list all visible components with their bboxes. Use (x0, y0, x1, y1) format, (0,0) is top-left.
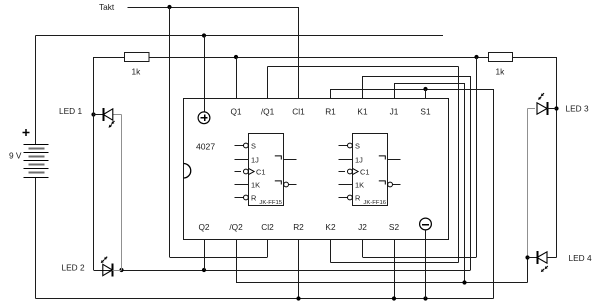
wire R2 stub (298, 240, 300, 299)
pin JK-FF16 1J (339, 159, 353, 161)
wire Cl2 stub (267, 240, 269, 258)
wire battery+ riser x=35.5 (35, 36, 37, 145)
svg-text:LED 1: LED 1 (59, 106, 82, 116)
svg-text:S: S (251, 141, 256, 150)
wire K1 stub up (362, 76, 364, 98)
wire J1 bus h3 y=83 (394, 83, 465, 85)
wire /Q1 bus h1 y=66.5 (268, 66, 459, 68)
svg-text:Q1: Q1 (230, 107, 241, 117)
LED D1 (94, 114, 104, 116)
wire R1 stub up (330, 89, 332, 98)
wire /Q2 stub down (236, 240, 238, 283)
pin JK-FF15 S (235, 145, 244, 147)
wire Q1 line to LED3 corner (513, 57, 557, 59)
node LED3 cathode junction (554, 106, 558, 110)
svg-text:/Q1: /Q1 (261, 107, 275, 117)
wire J1 bus drop x=464.5 (464, 83, 466, 283)
wire Q1 line y=57 left segment (94, 57, 126, 59)
svg-text:4027: 4027 (196, 142, 215, 152)
svg-text:C1: C1 (256, 167, 265, 176)
pin JK-FF15 Q output (275, 156, 282, 160)
wire /Q2 bus y=282.5 (236, 282, 528, 284)
pin JK-FF15 1J (235, 159, 249, 161)
svg-text:Cl1: Cl1 (292, 107, 305, 117)
wire Takt branch down x=169.5 (169, 7, 171, 257)
node S2 ground junction (392, 296, 396, 300)
node V+ to plus-pin junction (202, 33, 206, 37)
wire ground bus drop x=493.5 (493, 89, 495, 299)
wire J2 bus y=257 (363, 257, 477, 259)
svg-text:S: S (355, 141, 360, 150)
wire Q2 pin stub (204, 240, 206, 271)
node S1 junction (423, 87, 427, 91)
wire minus-pin stub (425, 230, 427, 299)
svg-text:Cl2: Cl2 (261, 222, 274, 232)
pin JK-FF16 R (339, 197, 348, 199)
wire battery- riser (35, 178, 37, 299)
wire LED3 right riser x=556.5 (556, 57, 558, 258)
wire Q1 pin stub (236, 57, 238, 98)
pin JK-FF16 S (339, 145, 348, 147)
svg-text:/Q2: /Q2 (229, 222, 243, 232)
wire J2 bus riser x=476.5 (476, 57, 478, 257)
wire plus-pin stub (204, 36, 206, 113)
pin JK-FF15 C1 clock (235, 171, 242, 173)
resistor R1a 1k left (125, 53, 150, 62)
wire K1 bus drop x=470.5 (470, 76, 472, 270)
pin JK-FF16 /Q output (379, 181, 386, 185)
svg-text:1k: 1k (496, 67, 506, 77)
battery BT1 9V (24, 144, 49, 146)
pin JK-FF16 Q output (379, 156, 386, 160)
svg-text:J1: J1 (390, 107, 399, 117)
wire /Q2 bus riser to LED4 (527, 258, 529, 283)
svg-text:K2: K2 (325, 222, 336, 232)
svg-text:LED 3: LED 3 (566, 104, 589, 114)
wire /Q1 stub up (267, 67, 269, 99)
wire Takt to Cl2 link y=257 (170, 257, 268, 259)
IC U1 4027 body (184, 99, 449, 240)
wire LED1 riser x=93.5 (93, 57, 95, 270)
svg-text:1K: 1K (355, 180, 364, 189)
svg-text:R: R (251, 193, 256, 202)
flip-flop JK-FF15 body (249, 134, 284, 206)
svg-text:R2: R2 (293, 222, 304, 232)
pin JK-FF15 /Q output (275, 181, 282, 185)
pin V+ plus symbol (198, 112, 210, 124)
wire 0V rail y=298.5 (36, 298, 494, 300)
svg-text:LED 2: LED 2 (62, 262, 85, 272)
pin JK-FF15 1K (235, 184, 249, 186)
wire K1 bus h2 y=76 (363, 76, 471, 78)
LED D2 (94, 270, 103, 272)
pin JK-FF16 C1 clock (339, 171, 346, 173)
node Takt junction (167, 5, 171, 9)
wire J1 stub up (394, 83, 396, 98)
wire J2 stub (362, 240, 364, 258)
svg-text:JK-FF15: JK-FF15 (259, 200, 282, 206)
svg-text:1k: 1k (132, 67, 142, 77)
svg-text:JK-FF16: JK-FF16 (363, 200, 386, 206)
node Q1 pin junction (234, 55, 238, 59)
wire Q1 line y=57 mid segment (149, 57, 489, 59)
svg-text:S1: S1 (420, 107, 431, 117)
svg-text:J2: J2 (358, 222, 367, 232)
wire S2 stub (394, 240, 396, 299)
svg-text:Q2: Q2 (198, 222, 209, 232)
wire Takt clock line y=7 (128, 7, 299, 9)
wire LED3 anode loop gray (528, 108, 535, 110)
IC notch (184, 164, 191, 179)
node R2 ground junction (296, 296, 300, 300)
svg-text:Takt: Takt (99, 2, 115, 12)
svg-text:1K: 1K (251, 180, 260, 189)
svg-text:C1: C1 (360, 167, 369, 176)
wire R1-S1 bus h4 y=89 (331, 89, 494, 91)
LED D4 (528, 257, 538, 259)
svg-text:R: R (355, 193, 360, 202)
node minus-pin ground junction (423, 296, 427, 300)
wire S1 stub (425, 89, 427, 98)
pin V- minus symbol (420, 218, 432, 230)
label battery plus (23, 129, 30, 136)
node /Q2-J1 junction (462, 280, 466, 284)
pin JK-FF15 R (235, 197, 244, 199)
svg-text:K1: K1 (357, 107, 368, 117)
wire Q2 LED row y=270 (94, 270, 471, 272)
svg-text:1J: 1J (355, 155, 363, 164)
wire V+ rail y=35.5 (36, 35, 444, 37)
node Q2 pin junction (202, 268, 206, 272)
svg-text:9 V: 9 V (9, 151, 22, 161)
svg-text:S2: S2 (389, 222, 400, 232)
node LED1 junction (91, 112, 95, 116)
node Q1-to-J2 junction (474, 55, 478, 59)
wire K2 bus y=262.5 (331, 262, 459, 264)
wire /Q1 bus drop x=458.5 (458, 67, 460, 263)
svg-text:LED 4: LED 4 (569, 253, 592, 263)
pin JK-FF16 1K (339, 184, 353, 186)
svg-text:1J: 1J (251, 155, 259, 164)
resistor R1b 1k right (489, 53, 513, 62)
svg-text:R1: R1 (325, 107, 336, 117)
wire LED1 anode loop gray (113, 114, 122, 116)
wire K2 stub (330, 240, 332, 263)
flip-flop JK-FF16 body (353, 134, 388, 206)
node LED2 cathode junction (119, 268, 123, 272)
LED D3 (537, 103, 547, 114)
node LED4 anode junction (525, 255, 529, 259)
wire Takt drop to Cl1 x=298.5 (298, 7, 300, 98)
